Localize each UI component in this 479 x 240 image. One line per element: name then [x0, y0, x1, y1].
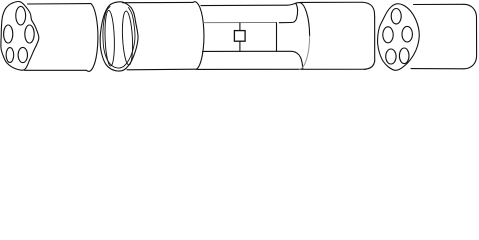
sleeve top line — [201, 2, 362, 5]
jacket ring outer — [100, 2, 138, 71]
cable C1 jacket face — [1, 1, 39, 70]
conductor C2 bottom-left — [386, 49, 396, 64]
conductor bundle left in ring — [104, 10, 115, 66]
cable C2 jacket end bottom corner — [364, 61, 375, 69]
jacket ring inner edge — [103, 7, 135, 69]
center square — [234, 31, 245, 42]
cable C1 bottom line — [25, 69, 87, 71]
center stem upper — [239, 23, 241, 30]
center stem lower — [239, 41, 241, 51]
splice bottom rail with end corner — [203, 51, 303, 69]
conductor C2 mid-left — [383, 27, 393, 43]
cable C1 top line — [28, 3, 92, 5]
conductor C2 bottom-right — [399, 48, 409, 64]
conductor C1 mid-left — [4, 25, 13, 43]
cable C2 face — [378, 4, 420, 71]
cable C2 jacket far-edge arc upper — [299, 3, 310, 37]
tube T1 top line — [123, 1, 194, 3]
conductor C1 mid-right — [25, 25, 34, 43]
cable C2 top line — [414, 3, 465, 5]
splice top rail gray — [203, 22, 277, 24]
conductor C1 top — [16, 6, 26, 25]
tube T1 bottom line — [127, 68, 197, 71]
conductor C1 bottom-right — [18, 47, 27, 62]
cable C2 jacket far-edge arc lower — [299, 36, 309, 69]
cable C1 far-edge arc — [86, 4, 98, 72]
cable C2 jacket end top corner — [362, 2, 375, 17]
cable C2 bottom line — [411, 68, 464, 70]
splice flange vertical — [276, 23, 278, 52]
conductor C2 mid-right — [402, 26, 412, 42]
cable C2 right cap — [464, 4, 477, 68]
tube T1 far-edge arc — [193, 2, 204, 69]
conductor C2 top — [391, 9, 401, 24]
splice top rail dark with end lip — [279, 4, 297, 23]
sleeve / jacket bottom line — [197, 68, 366, 70]
conductor C1 bottom-left — [6, 48, 14, 63]
conductor bundle right in ring — [121, 11, 134, 65]
cable C2 jacket end edge — [374, 17, 376, 61]
